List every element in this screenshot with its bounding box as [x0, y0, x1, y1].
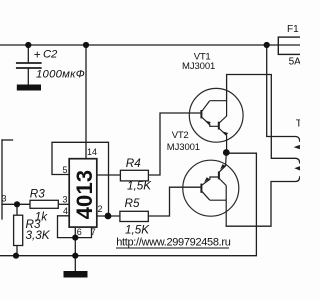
wire pins to ground rail — [74, 238, 76, 256]
VT2 q2 emitter arrow — [220, 164, 225, 169]
svg-text:F1: F1 — [287, 24, 299, 35]
wire pin4 loop — [58, 216, 92, 238]
node dot rail-ground — [72, 253, 78, 259]
wire VT1 collector bracket — [227, 75, 300, 164]
transistor VT1 internals — [201, 101, 228, 153]
svg-text:14: 14 — [87, 147, 97, 157]
svg-text:4013: 4013 — [72, 170, 97, 220]
resistor R3 1k body — [30, 200, 58, 208]
wire pin1 to R4 — [97, 174, 121, 176]
VT2 q2 base bar — [218, 172, 220, 180]
wire left edge vertical — [1, 140, 3, 219]
svg-text:3: 3 — [63, 194, 68, 204]
svg-text:C2: C2 — [43, 48, 58, 60]
wire left node to R3 — [2, 203, 30, 205]
node dot rail-R3b — [13, 253, 19, 259]
wire pin5 to pin2 loop — [52, 142, 109, 216]
transistor VT2 circle — [183, 160, 239, 216]
VT1 collector join bar — [210, 100, 227, 102]
wire pin14 supply — [85, 45, 87, 159]
svg-text:4: 4 — [63, 206, 68, 216]
VT1 q2 collector diagonal — [219, 116, 226, 123]
svg-text:1000мкФ: 1000мкФ — [36, 68, 85, 80]
wire pin3 to R3 — [58, 203, 69, 205]
wire R3b bottom lead — [16, 246, 18, 256]
resistor R5 body — [120, 211, 148, 221]
ground bar below C2 — [17, 85, 41, 91]
svg-text:R4: R4 — [126, 157, 141, 170]
capacitor C2 plates — [17, 63, 41, 68]
VT1 q1 base bar — [200, 110, 202, 118]
svg-text:R3: R3 — [30, 187, 45, 200]
node dot R3 junction — [14, 201, 20, 207]
VT2 collector join bar — [210, 199, 226, 201]
VT1 q2 emitter arrow — [222, 131, 228, 136]
svg-text:6: 6 — [77, 227, 82, 237]
IC U1 4013 body — [69, 159, 97, 227]
node dot rail-C2 — [25, 42, 31, 48]
VT1 collector vertical — [226, 101, 228, 117]
VT1 q2 emitter diagonal — [219, 129, 226, 136]
node dot VT midpoint — [223, 149, 230, 156]
wire pin6 stub — [74, 227, 76, 238]
resistor R4 body — [120, 170, 148, 181]
url underline — [116, 247, 229, 249]
svg-text:VT2: VT2 — [172, 130, 189, 141]
svg-text:1,5K: 1,5K — [127, 179, 152, 192]
wire bottom common rail — [0, 153, 256, 256]
VT2 q1 emitter arrow — [204, 177, 210, 182]
VT2 q1 emitter diagonal — [202, 177, 219, 185]
VT1 q1 collector diagonal — [202, 101, 210, 111]
svg-text:7: 7 — [91, 227, 96, 237]
svg-text:R5: R5 — [125, 197, 140, 210]
wire pin2 to R5 — [97, 215, 120, 217]
svg-text:5A: 5A — [289, 57, 300, 68]
VT2 q2 collector diagonal — [219, 179, 226, 186]
transformer T arrow 2 — [294, 166, 300, 170]
wire transformer tap3 — [226, 177, 300, 226]
wire top +V rail — [0, 44, 300, 46]
svg-text:T: T — [296, 118, 300, 129]
svg-text:MJ3001: MJ3001 — [167, 142, 200, 153]
svg-text:5: 5 — [63, 165, 68, 175]
wire left edge stub — [2, 139, 13, 141]
svg-text:2: 2 — [98, 204, 103, 214]
VT1 q2 base bar — [218, 122, 220, 130]
svg-text:MJ3001: MJ3001 — [182, 61, 215, 72]
node dot pin2 junction — [105, 213, 112, 220]
VT2 q2 emitter diagonal — [219, 153, 226, 173]
node dot rail-pin14 — [83, 42, 89, 48]
VT2 collector vertical — [225, 186, 227, 227]
VT1 emitter lead to midpoint — [226, 136, 228, 153]
svg-text:3: 3 — [2, 193, 7, 203]
node dot pin467 junction — [72, 235, 78, 241]
node dot rail-fuse — [264, 42, 270, 48]
wire rail to transformer tap1 — [267, 45, 300, 141]
wire ground stub — [74, 256, 76, 271]
transistor VT2 internals — [201, 153, 226, 227]
VT1 q1 emitter arrow — [205, 120, 211, 125]
svg-text:http://www.299792458.ru: http://www.299792458.ru — [116, 236, 231, 248]
svg-text:3,3K: 3,3K — [26, 229, 51, 242]
svg-text:1,5K: 1,5K — [125, 224, 150, 237]
wire C2 top lead — [27, 45, 29, 63]
resistor R3 3.3K body — [14, 215, 23, 245]
transistor VT1 circle — [189, 88, 243, 142]
wire R3b top lead — [16, 204, 18, 215]
VT2 q1 collector diagonal — [202, 191, 210, 200]
ground symbol bottom — [64, 271, 88, 278]
wire R5 to VT2 base — [148, 187, 201, 216]
VT2 q1 base bar — [200, 184, 202, 193]
svg-text:+: + — [34, 47, 41, 61]
transformer T arrow 1 — [294, 145, 300, 149]
VT1 q1 emitter diagonal — [202, 117, 219, 126]
wire C2 bottom lead — [27, 69, 29, 85]
fuse F1 — [278, 37, 304, 54]
wire R4 to VT1 base — [148, 113, 201, 175]
